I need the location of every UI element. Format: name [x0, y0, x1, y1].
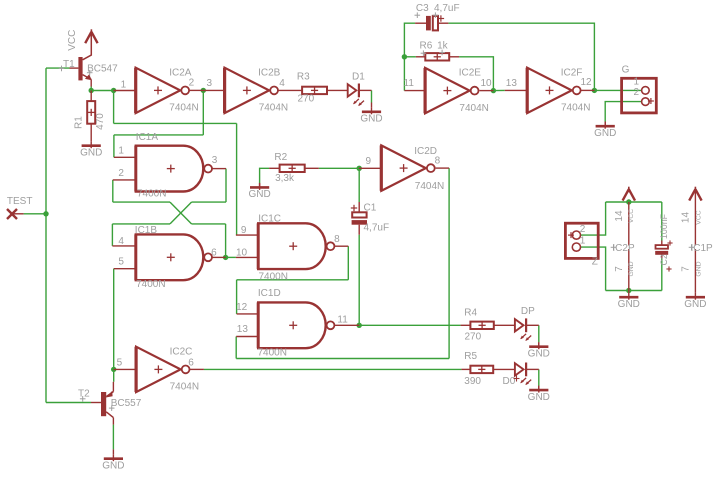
svg-text:GND: GND — [528, 349, 550, 360]
wire IC2C output stub — [190, 368, 204, 370]
wire node B down — [113, 91, 115, 124]
wire T1 emitter to node — [90, 87, 92, 91]
svg-text:7404N: 7404N — [561, 103, 590, 114]
svg-text:4,7uF: 4,7uF — [364, 223, 390, 234]
svg-text:4: 4 — [118, 236, 124, 247]
svg-text:GND: GND — [248, 189, 270, 200]
wire T2 emitter stub — [112, 382, 114, 392]
svg-text:R1: R1 — [74, 116, 85, 129]
wire VCC rail — [606, 201, 662, 203]
wire IC2P pin7 line — [628, 249, 630, 293]
wire R6 left — [404, 56, 416, 58]
wire Z pin1 to GND rail — [581, 247, 606, 290]
svg-text:D1: D1 — [352, 72, 365, 83]
resistor R4 270 — [464, 307, 494, 342]
svg-text:1: 1 — [580, 236, 586, 247]
node IC2F output junction — [592, 88, 597, 93]
svg-text:GND: GND — [102, 461, 124, 472]
svg-text:270: 270 — [298, 93, 315, 104]
svg-text:R6: R6 — [420, 40, 433, 51]
svg-text:1: 1 — [118, 145, 124, 156]
resistor R6 1k — [420, 40, 450, 60]
op-amp IC2E 7404N — [404, 68, 493, 114]
svg-text:R3: R3 — [297, 72, 310, 83]
wire IC1P pin7 line — [694, 249, 696, 293]
wire IC1D pin13 stub — [236, 336, 258, 338]
power pins IC1P — [681, 210, 713, 276]
svg-text:IC2D: IC2D — [414, 146, 437, 157]
wire R4 left lead — [461, 324, 471, 326]
wire C3 left lead — [415, 22, 426, 24]
svg-text:1: 1 — [634, 76, 640, 87]
svg-text:7404N: 7404N — [415, 181, 444, 192]
wire TEST pin stub — [12, 213, 24, 215]
wire IC1B output stub — [212, 256, 226, 258]
power VCC IC2P — [623, 187, 635, 201]
wire IC1C pin9 stub — [236, 234, 258, 236]
node TEST mark — [7, 196, 33, 219]
svg-text:2: 2 — [189, 78, 195, 89]
node IC2P pin14 junction — [626, 199, 631, 204]
wire IC2E input stub — [404, 90, 425, 92]
node D junction — [357, 166, 362, 171]
wire C1 bottom lead — [358, 225, 360, 235]
wire IC2F output stub — [581, 89, 594, 91]
wire IC2E output stub — [480, 90, 494, 92]
wire T2 base — [46, 402, 91, 404]
node B junction — [111, 88, 116, 93]
svg-text:R4: R4 — [464, 307, 477, 318]
wire IC2D out horizontal — [236, 358, 449, 360]
svg-text:7404N: 7404N — [259, 103, 288, 114]
wire R5 to D0 — [493, 368, 515, 370]
wire latch diagonal up — [170, 202, 192, 224]
svg-text:5: 5 — [118, 256, 124, 267]
svg-text:C2: C2 — [659, 254, 669, 265]
svg-text:VCC: VCC — [696, 210, 703, 224]
svg-text:11: 11 — [337, 315, 348, 326]
wire GND rail — [606, 290, 662, 292]
wire D1 gnd stub — [371, 103, 373, 108]
node IC2P pin7 junction — [626, 288, 631, 293]
ground GND IC2P — [618, 293, 640, 310]
wire C3 left column — [404, 23, 415, 90]
ground GND D1 — [360, 107, 382, 124]
svg-text:2: 2 — [580, 224, 586, 235]
wire IC1A pin2 vertical — [112, 180, 114, 202]
wire R2 to node D — [319, 167, 359, 169]
svg-text:IC1C: IC1C — [258, 213, 281, 224]
wire C2 top lead — [661, 241, 663, 246]
svg-text:C1: C1 — [364, 203, 377, 214]
svg-text:IC1B: IC1B — [135, 225, 158, 236]
svg-text:IC2B: IC2B — [258, 67, 281, 78]
op-amp IC1A 7400N — [118, 132, 217, 200]
svg-text:2: 2 — [118, 168, 124, 179]
svg-text:GND: GND — [80, 148, 102, 159]
resistor R5 390 — [464, 351, 493, 387]
wire C2 bottom — [661, 259, 663, 291]
wire TEST rail vertical — [45, 68, 47, 402]
wire C2 top — [661, 202, 663, 241]
capacitor C2 100nF — [655, 213, 672, 271]
svg-text:GND: GND — [696, 261, 703, 276]
wire R6 right corner — [459, 57, 493, 91]
wire DP gnd stub — [538, 342, 540, 346]
svg-text:9: 9 — [366, 156, 372, 167]
wire IC2P pin14 line — [628, 202, 630, 246]
wire IC1D pin12 vertical — [236, 280, 238, 314]
svg-text:270: 270 — [465, 332, 482, 343]
ground GND IC1P — [684, 293, 706, 310]
svg-text:8: 8 — [435, 156, 441, 167]
wire Z pin2 to VCC rail — [581, 202, 606, 235]
svg-text:12: 12 — [236, 302, 248, 313]
svg-text:7404N: 7404N — [459, 103, 488, 114]
svg-text:T1: T1 — [63, 59, 75, 70]
connector G — [622, 65, 657, 113]
wire IC2C out to R5 — [204, 368, 462, 370]
svg-text:IC2E: IC2E — [459, 68, 482, 79]
svg-text:7404N: 7404N — [170, 382, 199, 393]
wire IC1C pin10 stub — [236, 256, 258, 258]
op-amp IC1D 7400N — [236, 288, 348, 359]
svg-text:IC2P: IC2P — [612, 243, 635, 254]
ground GND DP — [528, 342, 550, 359]
wire to IC1C pin9 horizontal — [114, 122, 237, 124]
op-amp IC2F 7404N — [506, 67, 592, 113]
wire C3 right lead — [438, 22, 448, 24]
svg-text:VCC: VCC — [67, 30, 78, 51]
wire IC1A output stub — [212, 168, 227, 170]
svg-text:390: 390 — [464, 376, 481, 387]
op-amp IC2C 7404N — [117, 346, 199, 392]
connector Z — [565, 223, 598, 267]
wire D1 cathode to GND — [371, 90, 373, 102]
svg-text:1k: 1k — [437, 40, 449, 51]
capacitor C3 4,7uF — [415, 3, 460, 31]
node IC2E output junction — [491, 88, 496, 93]
ground GND D0 — [528, 386, 550, 403]
wire T1 base stub — [70, 67, 79, 69]
wire R6 right lead — [449, 56, 459, 58]
diode DP LED — [515, 306, 535, 341]
diode D0 LED — [503, 363, 532, 388]
wire node A to IC2A input — [91, 90, 113, 92]
resistor R3 270 — [297, 72, 327, 105]
wire C1 top — [358, 168, 360, 202]
wire TEST stub — [24, 213, 46, 215]
wire IC1C output horizontal — [237, 279, 349, 281]
svg-text:GND: GND — [360, 114, 382, 125]
wire node D to IC2D input — [358, 167, 360, 169]
node C junction IC2A output — [201, 88, 206, 93]
op-amp IC1C 7400N — [236, 213, 340, 282]
wire latch top-right horizontal — [192, 201, 227, 203]
wire IC2B out to R3 — [278, 89, 302, 91]
wire R2 gnd stub — [259, 183, 261, 187]
wire T2 collector — [112, 425, 114, 450]
svg-text:7400N: 7400N — [137, 188, 166, 199]
wire IC1P pin14 line — [694, 190, 696, 246]
svg-text:14: 14 — [681, 212, 692, 224]
wire G gnd stub — [604, 122, 606, 127]
svg-text:7400N: 7400N — [259, 272, 288, 283]
svg-text:13: 13 — [506, 78, 518, 89]
ground GND G — [594, 122, 616, 139]
op-amp IC1B 7400N — [118, 225, 217, 290]
wire IC1D output stub — [334, 324, 359, 326]
svg-text:3: 3 — [212, 155, 218, 166]
svg-text:13: 13 — [237, 324, 249, 335]
svg-text:2: 2 — [634, 87, 640, 98]
wire IC2C input stub — [114, 368, 136, 370]
svg-text:BC557: BC557 — [111, 398, 142, 409]
svg-text:IC1D: IC1D — [258, 288, 281, 299]
svg-text:100nF: 100nF — [659, 213, 669, 239]
svg-text:GND: GND — [684, 299, 706, 310]
svg-text:3,3k: 3,3k — [275, 173, 295, 184]
wire R2 left corner — [260, 168, 270, 183]
svg-text:TEST: TEST — [7, 196, 33, 207]
wire C3 right to IC2F out — [448, 23, 594, 90]
wire R1 bottom lead — [90, 124, 92, 142]
node R6 junction — [402, 54, 407, 59]
wire T1 base — [46, 67, 70, 69]
wire IC1C output stub — [334, 245, 348, 247]
wire R4 to DP — [494, 324, 515, 326]
svg-text:IC1P: IC1P — [691, 243, 714, 254]
node A junction — [89, 88, 94, 93]
wire IC1B pin4 stub — [112, 245, 135, 247]
wire IC1D out to R4 — [359, 324, 460, 326]
svg-text:7404N: 7404N — [169, 103, 198, 114]
wire R5 left lead — [461, 368, 470, 370]
wire C1 bottom — [358, 235, 360, 326]
transistor T2 BC557 — [78, 389, 142, 418]
svg-text:10: 10 — [236, 248, 248, 259]
wire IC1B out to IC1C pin10 — [226, 256, 236, 258]
wire R6 left lead — [416, 56, 425, 58]
svg-text:470: 470 — [95, 113, 106, 130]
ground GND T2 — [102, 454, 124, 471]
wire IC2F out to G pin1 — [594, 89, 641, 91]
svg-text:C3: C3 — [416, 3, 429, 14]
op-amp IC2A 7404N — [121, 67, 213, 113]
svg-text:9: 9 — [241, 225, 247, 236]
svg-text:GND: GND — [594, 128, 616, 139]
wire IC1D pin12 stub — [237, 313, 259, 315]
capacitor C1 4,7uF — [351, 203, 389, 234]
wire IC1B pin4 vertical — [111, 224, 113, 246]
svg-text:4,7uF: 4,7uF — [434, 3, 460, 14]
wire D0 cathode corner — [538, 369, 540, 386]
wire D1 cathode stub — [360, 89, 372, 91]
wire D0 gnd stub — [538, 386, 540, 390]
wire DP cathode stub — [527, 324, 539, 326]
wire D0 cathode stub — [527, 368, 539, 370]
svg-text:IC2F: IC2F — [561, 67, 583, 78]
svg-text:D0: D0 — [503, 376, 516, 387]
resistor R2 3,3k — [274, 152, 304, 184]
wire IC2D out vertical — [448, 168, 450, 358]
wire IC1A pin1 stub — [114, 156, 136, 158]
wire IC1B pin5 vertical — [113, 269, 115, 370]
svg-text:T2: T2 — [78, 389, 90, 400]
wire node C to IC1A pin1 horizontal — [114, 134, 203, 136]
wire node C down — [202, 90, 204, 134]
ground GND R2 — [248, 183, 270, 200]
wire IC1B pin5 stub — [114, 268, 136, 270]
wire R2 right lead — [305, 167, 319, 169]
wire T2 emitter vertical — [113, 369, 115, 381]
svg-text:IC1A: IC1A — [136, 132, 159, 143]
wire IC1B output up — [225, 224, 227, 258]
wire IC2E out to IC2F in — [493, 89, 504, 91]
svg-text:6: 6 — [188, 358, 194, 369]
wire IC1C output down — [347, 246, 349, 280]
resistor R1 470 — [74, 101, 107, 130]
wire T2 collector top stub — [112, 418, 114, 425]
svg-text:DP: DP — [521, 306, 535, 317]
wire latch top-left horizontal — [113, 201, 170, 203]
svg-text:14: 14 — [614, 210, 625, 222]
wire IC1A pin2 stub — [113, 179, 136, 181]
wire IC1A pin1 vertical — [113, 135, 115, 157]
node IC1D output junction — [357, 323, 362, 328]
svg-text:11: 11 — [404, 78, 415, 89]
wire IC2D input stub — [359, 167, 381, 169]
wire R3 to D1 — [327, 89, 348, 91]
wire C1 top lead — [358, 202, 360, 212]
svg-text:1: 1 — [121, 80, 127, 91]
wire latch diagonal down — [170, 202, 192, 224]
wire R1 top lead — [90, 91, 92, 102]
svg-text:G: G — [622, 65, 630, 76]
node TEST junction — [43, 211, 48, 216]
diode D1 LED — [348, 72, 366, 106]
svg-text:12: 12 — [581, 77, 593, 88]
svg-text:6: 6 — [211, 248, 217, 259]
svg-text:3: 3 — [207, 78, 213, 89]
svg-text:R2: R2 — [274, 152, 287, 163]
wire latch bottom-right horizontal — [192, 223, 226, 225]
wire IC2A output stub — [190, 89, 204, 91]
wire to IC1C pin9 vertical — [236, 123, 238, 235]
op-amp IC2D 7404N — [366, 145, 445, 191]
svg-text:Z: Z — [592, 257, 598, 268]
wire C2 bottom lead — [661, 255, 663, 259]
svg-text:10: 10 — [481, 78, 493, 89]
wire IC2F input stub — [505, 89, 527, 91]
wire IC2D output stub — [436, 167, 450, 169]
wire T2 collector gnd stub — [112, 449, 114, 454]
svg-text:8: 8 — [334, 234, 340, 245]
wire IC1A output down — [225, 169, 227, 203]
wire T2 base stub — [91, 402, 101, 404]
node IC1B output junction — [223, 255, 228, 260]
svg-text:GND: GND — [628, 261, 635, 276]
wire IC2A input stub — [114, 90, 136, 92]
ground GND R1 — [80, 141, 102, 158]
wire latch bottom-left horizontal — [112, 223, 170, 225]
node IC2C input junction — [111, 367, 116, 372]
op-amp IC2B 7404N — [225, 67, 289, 113]
svg-text:GND: GND — [528, 392, 550, 403]
power pins IC2P — [611, 209, 636, 277]
svg-text:7: 7 — [681, 266, 692, 272]
power VCC IC1P — [689, 187, 701, 201]
wire G pin2 to GND — [605, 102, 642, 122]
svg-text:5: 5 — [117, 358, 123, 369]
svg-text:7400N: 7400N — [136, 279, 165, 290]
wire IC2B input stub — [203, 89, 224, 91]
svg-text:VCC: VCC — [628, 209, 635, 223]
wire IC1D pin13 down — [235, 337, 237, 359]
svg-text:7: 7 — [614, 266, 625, 272]
svg-text:7400N: 7400N — [258, 348, 287, 359]
power VCC T1 — [67, 29, 97, 50]
svg-text:GND: GND — [618, 299, 640, 310]
wire DP cathode corner — [538, 325, 540, 342]
svg-text:4: 4 — [279, 78, 285, 89]
svg-text:IC2C: IC2C — [170, 346, 193, 357]
transistor T1 BC547 — [59, 34, 118, 87]
svg-text:R5: R5 — [464, 351, 477, 362]
wire R2 left lead — [269, 167, 280, 169]
